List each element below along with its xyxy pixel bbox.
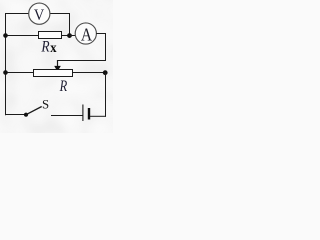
switch S	[24, 107, 42, 117]
wire: rheostat row left segment	[5, 72, 34, 74]
wire: ammeter right horizontal	[96, 33, 106, 35]
wire: right vertical from node D down to battery row	[105, 73, 107, 117]
rheostat R (box)	[34, 70, 73, 77]
battery BT1	[83, 105, 89, 122]
slider arrow of rheostat	[54, 60, 61, 72]
wire: slider horizontal wire	[57, 60, 106, 62]
ammeter U2 (A)	[75, 23, 96, 45]
node D (junction dot, rheostat right / battery riser)	[103, 70, 108, 75]
wire: Rx row left segment	[5, 35, 39, 37]
resistor Rx (box)	[39, 32, 62, 39]
wire: rheostat right terminal to node D	[73, 72, 106, 74]
wire: vertical drop from voltmeter wire to node B	[69, 13, 71, 36]
wire: voltmeter right horizontal	[50, 13, 70, 15]
svg-text:R: R	[59, 78, 68, 95]
svg-text:S: S	[42, 98, 49, 112]
svg-text:x: x	[50, 41, 56, 56]
wire: node B to ammeter	[70, 35, 77, 37]
voltmeter U1 (V)	[29, 3, 50, 24]
wire: left vertical bus	[5, 13, 7, 115]
node A (junction dot, left bus / Rx row)	[3, 33, 8, 38]
wire: Rx box to node B	[62, 35, 71, 37]
node C (junction dot, left bus / rheostat row)	[3, 70, 8, 75]
svg-text:R: R	[41, 38, 51, 55]
svg-text:V: V	[34, 7, 45, 24]
label Rx	[41, 38, 57, 56]
wire: top left horizontal to voltmeter	[5, 13, 29, 15]
node B (junction dot, Rx / voltmeter / ammeter)	[67, 33, 72, 38]
wire: right vertical from ammeter down to slider wire	[105, 33, 107, 61]
wire: bottom left horizontal to switch pivot	[5, 114, 26, 116]
wire: battery negative plate to bottom right corner	[90, 115, 106, 117]
svg-text:A: A	[81, 24, 93, 44]
wire: switch contact to battery positive plate	[51, 115, 83, 117]
